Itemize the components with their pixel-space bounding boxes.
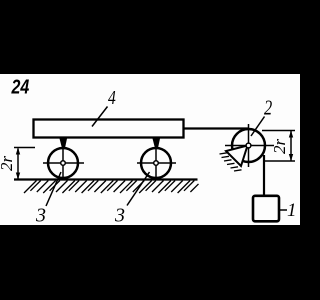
svg-text:3: 3 xyxy=(114,205,125,227)
svg-text:3: 3 xyxy=(35,205,46,227)
svg-text:2r: 2r xyxy=(270,139,289,155)
svg-text:2: 2 xyxy=(264,97,272,120)
svg-text:24: 24 xyxy=(11,76,30,98)
svg-text:1: 1 xyxy=(287,200,297,221)
svg-text:4: 4 xyxy=(108,86,116,108)
svg-text:2r: 2r xyxy=(0,156,16,172)
